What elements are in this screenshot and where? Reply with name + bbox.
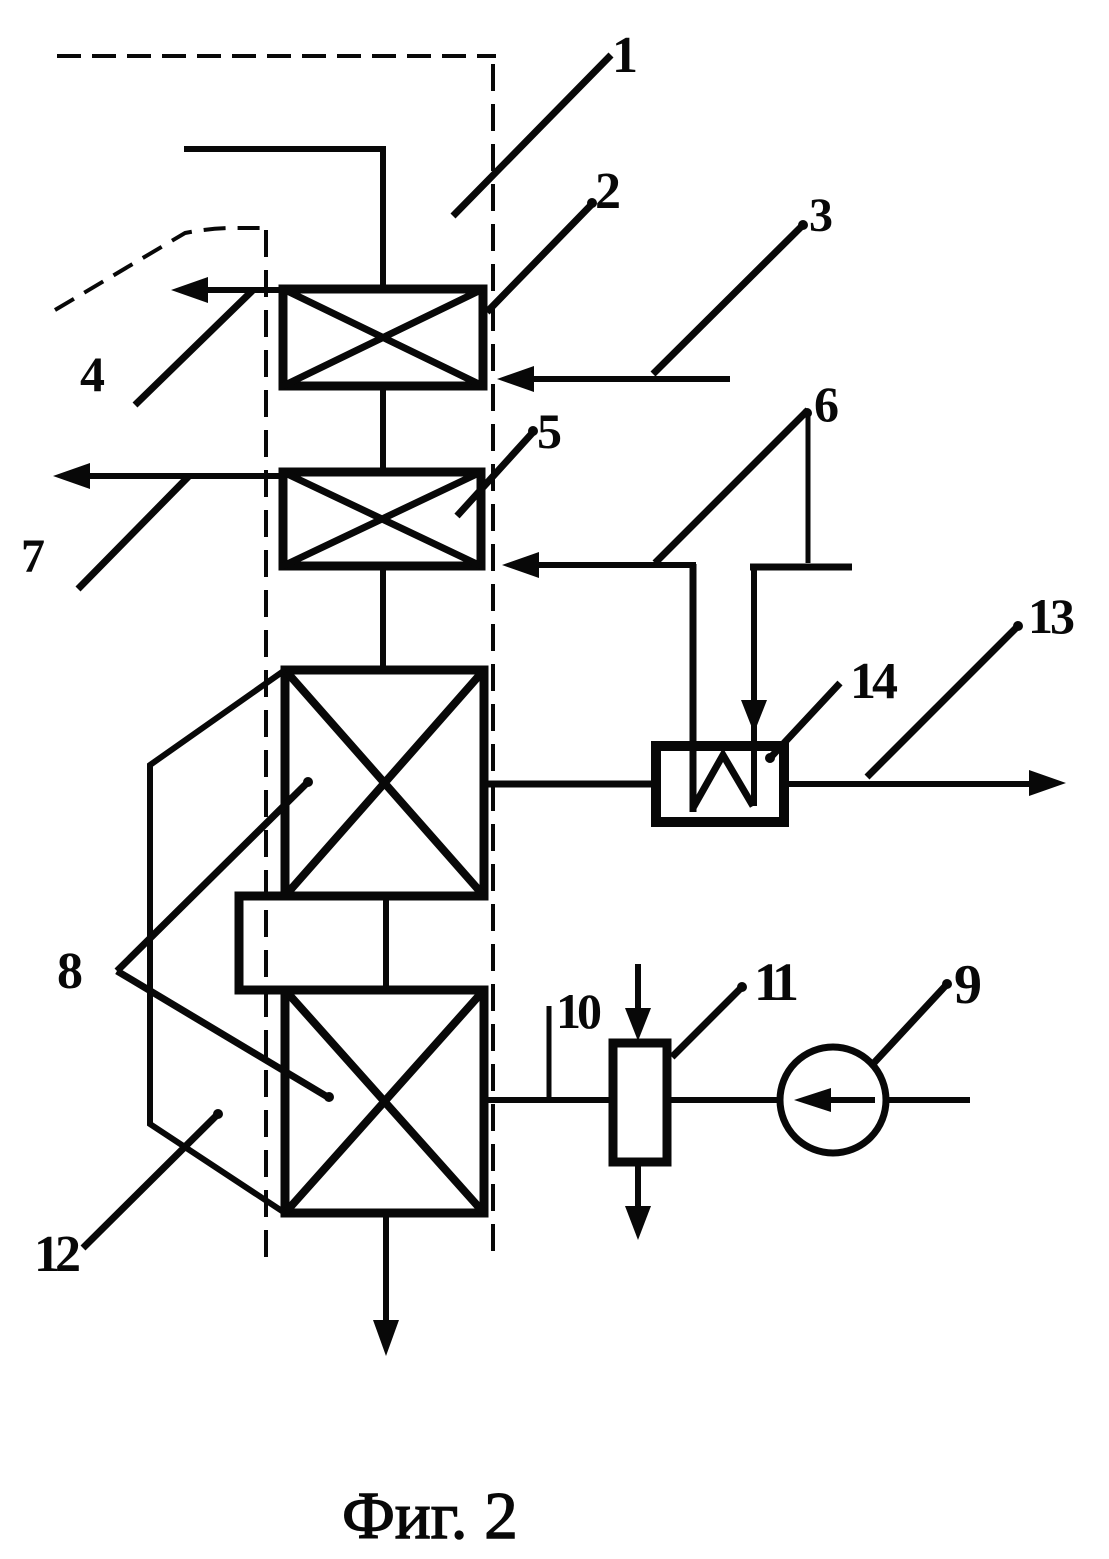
svg-text:5: 5	[537, 403, 562, 459]
arrow 13 output right	[784, 781, 1035, 787]
pump 9 internal arrow	[828, 1097, 875, 1103]
wire valve 11 to pump 9	[667, 1097, 779, 1103]
leader line 14	[771, 683, 840, 757]
boundary dashed top horizontal	[57, 54, 496, 58]
column section 8 upper box	[285, 670, 484, 896]
heat exchanger 2 box	[283, 289, 483, 386]
column section 8 upper cross	[285, 670, 484, 896]
leader tick 6	[802, 408, 812, 418]
arrow out of valve 11 bottom	[635, 1162, 641, 1206]
column shell chamfer outline 12	[150, 670, 285, 1213]
svg-text:3: 3	[809, 189, 833, 242]
leader line 1	[453, 55, 611, 216]
leader line 4	[135, 290, 253, 405]
arrow out of column bottom	[383, 1213, 389, 1324]
pump 9 circle	[780, 1047, 886, 1153]
svg-text:Фиг. 2: Фиг. 2	[342, 1479, 518, 1553]
heat exchanger 5 box	[283, 472, 481, 566]
column section 8 lower cross	[285, 990, 484, 1213]
svg-text:11: 11	[754, 952, 797, 1012]
pipe 6 right branch horizontal	[750, 564, 852, 571]
leader line 12	[83, 1112, 220, 1248]
wire column to valve 11	[484, 1097, 613, 1103]
wire column to heater 14	[484, 781, 660, 788]
leader line 11	[672, 985, 744, 1057]
leader line 7	[78, 476, 189, 589]
boundary dashed curve top-left	[55, 228, 268, 310]
svg-text:1: 1	[612, 27, 638, 84]
leader line 13	[867, 624, 1020, 777]
svg-text:9: 9	[954, 954, 982, 1016]
heat exchanger 5 cross	[283, 472, 481, 566]
leader line 8 upper	[117, 780, 310, 971]
svg-text:4: 4	[80, 346, 105, 402]
svg-text:8: 8	[57, 943, 83, 1000]
arrow 3 into exchanger 2 right	[531, 376, 730, 382]
stream 6 leader vertical	[806, 410, 811, 563]
stream 6 leader diagonal	[655, 410, 808, 563]
svg-text:13: 13	[1028, 588, 1074, 644]
arrow out left of exchanger 2	[204, 287, 283, 293]
boundary dashed left vertical	[264, 230, 268, 1263]
leader line 8 lower	[117, 971, 331, 1099]
svg-text:2: 2	[595, 163, 621, 220]
svg-text:10: 10	[556, 983, 601, 1039]
arrow into valve 11 top	[635, 964, 641, 1012]
node 10 tick	[547, 1006, 552, 1100]
arrow out left of exchanger 5	[88, 473, 283, 479]
leader line 3	[653, 223, 805, 374]
wire into pump 9 from right	[886, 1097, 970, 1103]
wire inlet top to heat exchanger 2	[184, 149, 383, 285]
svg-text:6: 6	[814, 376, 839, 432]
svg-text:12: 12	[34, 1226, 79, 1283]
wire exchanger5 to column top section	[380, 566, 386, 670]
duct between column sections	[239, 896, 484, 990]
wire between column sections	[383, 896, 389, 990]
svg-text:7: 7	[21, 530, 45, 583]
arrow 6 into exchanger 5 right	[535, 562, 696, 568]
valve 11 box	[613, 1043, 667, 1162]
heat exchanger 2 cross	[283, 289, 483, 386]
svg-text:14: 14	[850, 653, 898, 710]
leader line 9	[872, 982, 949, 1065]
pipe 6 left branch down to heater 14	[690, 564, 697, 812]
heater 14 box	[656, 746, 784, 822]
leader line 5	[457, 430, 535, 516]
heater 14 coil	[693, 755, 753, 808]
column section 8 lower box	[285, 990, 484, 1213]
boundary dashed right vertical	[491, 64, 495, 1253]
pipe 6 right branch down into heater 14 with arrow	[751, 567, 757, 806]
wire exchanger2 to exchanger5	[380, 386, 386, 472]
leader line 2	[487, 202, 594, 312]
